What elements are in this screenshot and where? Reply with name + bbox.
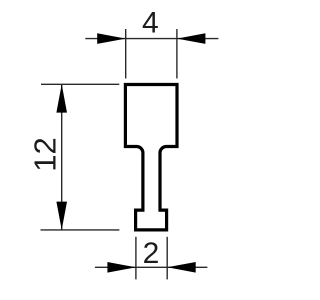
svg-text:12: 12 [28, 137, 63, 171]
dimension 12: arrowhead bottom [56, 202, 67, 230]
dimension 4: arrowhead right [177, 33, 206, 44]
dimension 2: extension line left [135, 237, 137, 280]
dimension 2: arrowhead left [107, 262, 135, 273]
svg-text:4: 4 [142, 7, 159, 40]
dimension 12: extension line top [41, 83, 119, 85]
dimension 4: extension line left [125, 29, 127, 79]
dimension 12: arrowhead top [56, 84, 67, 112]
dimension 2: dimension line [95, 266, 207, 268]
dimension 2: arrowhead right [167, 262, 196, 273]
profile outline [125, 85, 177, 230]
dimension 12: dimension line [61, 84, 63, 230]
dimension 12: extension line bottom [41, 229, 120, 231]
dimension 4: dimension line [85, 38, 218, 40]
dimension 4: extension line right [176, 29, 178, 79]
svg-text:2: 2 [143, 237, 160, 270]
dimension 2: extension line right [166, 237, 168, 280]
dimension 4: arrowhead left [97, 33, 126, 44]
